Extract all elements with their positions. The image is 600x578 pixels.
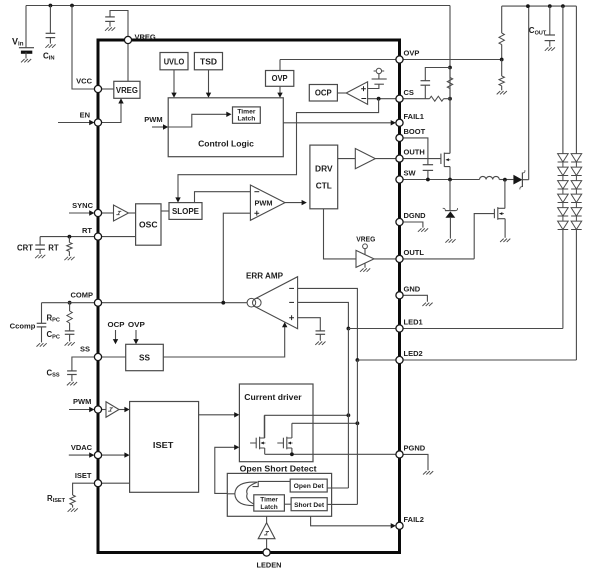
svg-text:DRV: DRV [315,165,333,174]
svg-text:TSD: TSD [200,57,217,66]
svg-text:FAIL2: FAIL2 [404,515,424,524]
svg-text:EN: EN [80,110,90,119]
svg-text:OUTL: OUTL [404,248,425,257]
svg-text:FAIL1: FAIL1 [404,112,424,121]
svg-text:Control Logic: Control Logic [198,139,254,149]
svg-text:DGND: DGND [404,211,427,220]
svg-text:ISET: ISET [153,440,174,450]
svg-text:SS: SS [80,345,90,354]
svg-text:RT: RT [48,243,59,252]
svg-text:Latch: Latch [237,116,255,123]
svg-text:OVP: OVP [404,49,420,58]
svg-text:OCP: OCP [315,89,332,98]
svg-text:VREG: VREG [116,86,138,95]
svg-text:LEDEN: LEDEN [257,560,282,569]
svg-text:Open Det: Open Det [294,483,325,490]
svg-text:RT: RT [82,226,92,235]
svg-text:OSC: OSC [139,221,158,230]
svg-text:OUTH: OUTH [404,148,425,157]
svg-text:SYNC: SYNC [72,201,93,210]
svg-text:CS: CS [404,88,414,97]
svg-text:VCC: VCC [76,77,92,86]
svg-text:Ccomp: Ccomp [10,321,36,330]
svg-text:PWM: PWM [144,115,162,124]
svg-text:Current driver: Current driver [244,392,302,402]
svg-text:LED1: LED1 [404,318,423,327]
svg-text:PWM: PWM [73,397,91,406]
svg-text:Timer: Timer [260,497,278,504]
svg-text:CTL: CTL [316,181,332,190]
svg-text:ISET: ISET [75,471,92,480]
svg-text:Short Det: Short Det [294,502,325,509]
svg-text:COMP: COMP [71,291,94,300]
svg-text:CRT: CRT [17,243,33,252]
svg-text:SS: SS [139,354,151,363]
svg-text:ERR AMP: ERR AMP [246,271,283,281]
svg-text:SLOPE: SLOPE [172,207,200,216]
svg-text:LED2: LED2 [404,349,423,358]
svg-text:PWM: PWM [255,199,273,208]
svg-text:GND: GND [404,284,421,293]
svg-text:BOOT: BOOT [404,127,426,136]
svg-text:Timer: Timer [237,108,255,115]
svg-text:PGND: PGND [404,444,426,453]
svg-text:Open Short Detect: Open Short Detect [240,463,317,473]
svg-text:UVLO: UVLO [164,57,185,66]
svg-text:OCP: OCP [108,320,125,329]
svg-text:VDAC: VDAC [71,443,93,452]
svg-text:OVP: OVP [272,74,288,83]
svg-text:SW: SW [404,169,417,178]
svg-text:VREG: VREG [135,32,156,41]
svg-text:OVP: OVP [128,320,145,329]
svg-text:VREG: VREG [356,234,375,243]
svg-text:Latch: Latch [260,504,277,511]
